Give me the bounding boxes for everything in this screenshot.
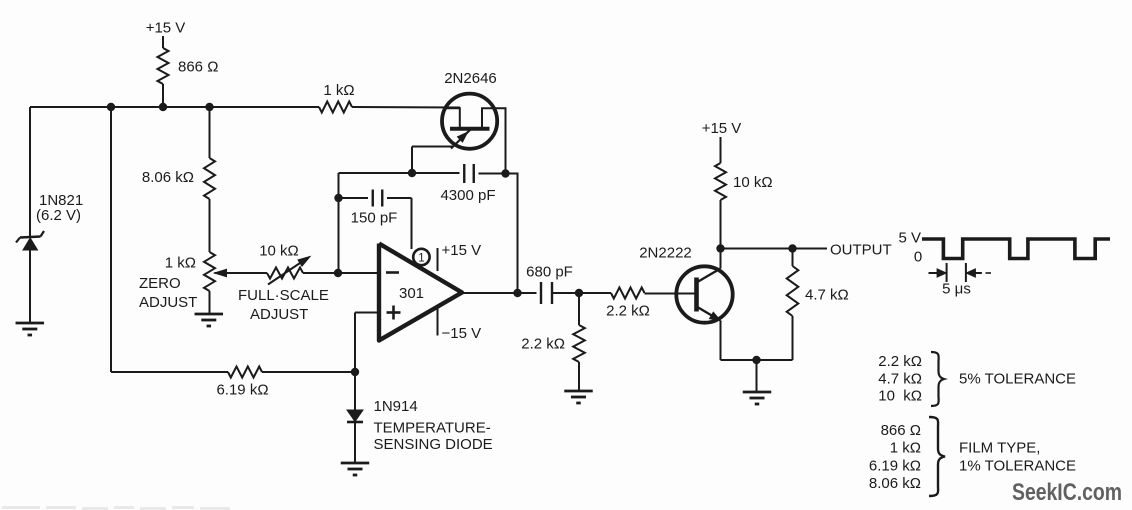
svg-text:4.7 kΩ: 4.7 kΩ [805, 287, 849, 304]
svg-text:2.2 kΩ: 2.2 kΩ [606, 303, 650, 320]
svg-text:6.19 kΩ: 6.19 kΩ [216, 382, 268, 399]
svg-text:2.2 kΩ: 2.2 kΩ [878, 353, 922, 370]
svg-text:ADJUST: ADJUST [250, 306, 308, 323]
svg-text:OUTPUT: OUTPUT [830, 242, 892, 259]
svg-text:1 kΩ: 1 kΩ [323, 82, 354, 99]
svg-text:0: 0 [914, 249, 922, 266]
svg-text:(6.2 V): (6.2 V) [36, 207, 81, 224]
svg-text:6.19 kΩ: 6.19 kΩ [869, 457, 921, 474]
svg-text:1N914: 1N914 [374, 398, 418, 415]
svg-text:FILM TYPE,: FILM TYPE, [959, 440, 1040, 457]
svg-text:866 Ω: 866 Ω [178, 59, 218, 76]
svg-text:+15 V: +15 V [702, 120, 742, 137]
svg-text:1: 1 [418, 253, 424, 265]
svg-text:2N2646: 2N2646 [444, 70, 497, 87]
svg-text:FULL·SCALE: FULL·SCALE [238, 287, 329, 304]
svg-text:SeekIC.com: SeekIC.com [1012, 479, 1122, 506]
svg-text:10 kΩ: 10 kΩ [878, 388, 922, 405]
svg-text:2.2 kΩ: 2.2 kΩ [521, 336, 565, 353]
svg-text:1 kΩ: 1 kΩ [165, 255, 196, 272]
svg-text:2N2222: 2N2222 [639, 245, 692, 262]
svg-text:ZERO: ZERO [139, 275, 181, 292]
svg-text:10 kΩ: 10 kΩ [733, 174, 773, 191]
svg-text:8.06 kΩ: 8.06 kΩ [142, 169, 194, 186]
svg-text:ADJUST: ADJUST [139, 294, 197, 311]
svg-text:680 pF: 680 pF [526, 264, 573, 281]
svg-text:5 μs: 5 μs [942, 281, 971, 298]
svg-text:SENSING DIODE: SENSING DIODE [374, 436, 493, 453]
svg-text:4.7 kΩ: 4.7 kΩ [878, 371, 922, 388]
svg-text:+15 V: +15 V [442, 242, 482, 259]
svg-text:+15 V: +15 V [146, 20, 186, 37]
svg-text:TEMPERATURE-: TEMPERATURE- [374, 420, 491, 437]
svg-text:866 Ω: 866 Ω [881, 422, 921, 439]
svg-text:150 pF: 150 pF [351, 210, 398, 227]
svg-text:10 kΩ: 10 kΩ [259, 243, 299, 260]
svg-text:5 V: 5 V [898, 230, 921, 247]
svg-text:5% TOLERANCE: 5% TOLERANCE [959, 371, 1076, 388]
svg-text:8.06 kΩ: 8.06 kΩ [869, 475, 921, 492]
svg-text:4300 pF: 4300 pF [440, 187, 495, 204]
svg-text:−15 V: −15 V [442, 325, 482, 342]
svg-text:301: 301 [399, 285, 424, 302]
svg-text:1% TOLERANCE: 1% TOLERANCE [959, 457, 1076, 474]
svg-text:1 kΩ: 1 kΩ [890, 440, 921, 457]
